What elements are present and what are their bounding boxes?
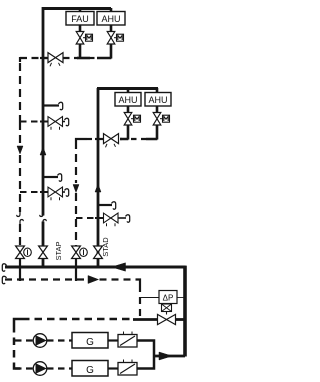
- dP sensor line: [140, 297, 159, 299]
- dP sensor box: [159, 291, 177, 304]
- shutoff valve on bank1 return row: [48, 53, 63, 67]
- flow arrow right on return header: [88, 276, 99, 284]
- wire: AHU drop from header: [110, 8, 113, 12]
- svg-text:G: G: [86, 337, 94, 348]
- wire: merged output to right main: [153, 355, 185, 358]
- pump P1: [33, 334, 47, 348]
- svg-text:AHU: AHU: [148, 95, 167, 105]
- svg-text:G: G: [86, 365, 94, 376]
- balancing valve w/ gauge on x76: [72, 246, 81, 259]
- gooseneck on drain row y218: [126, 215, 130, 223]
- balancing valve w/ gauge on x20: [16, 246, 25, 259]
- wire: bank2 return row dashed: [87, 138, 96, 140]
- wire: FAU tee on return row: [77, 57, 90, 60]
- wire: AHU2.2 drop: [156, 88, 159, 93]
- svg-text:ΔP: ΔP: [163, 294, 174, 303]
- flow arrow up on x98: [95, 184, 101, 192]
- vent tee with gooseneck on riser x43 (lower): [44, 176, 58, 178]
- control valve below AHU2.2: [153, 113, 161, 126]
- flow arrow up on x43: [40, 147, 46, 155]
- flow arrow down on x20: [17, 146, 23, 154]
- wire: AHU2.1 drop: [127, 88, 130, 93]
- drain row y192: dashed from x20 tee: [20, 191, 41, 193]
- drain valve on row y192: [48, 187, 63, 197]
- wire: bottom supply header (solid): [5, 266, 186, 269]
- unit AHU (bank2 left): [115, 93, 141, 107]
- svg-text:AHU: AHU: [101, 14, 120, 24]
- wire: AHU2.2 pipe to valve: [156, 106, 159, 113]
- unit AHU (bank2 right): [145, 93, 171, 107]
- wire: supply riser x43: [42, 7, 45, 216]
- flexible union on x20: [17, 212, 23, 224]
- svg-text:STAD: STAD: [101, 237, 110, 257]
- boiler G1: [72, 333, 108, 349]
- gooseneck on drain row y192: [65, 189, 69, 197]
- wire: right supply main vertical: [183, 266, 187, 357]
- wire: FAU pipe to valve: [79, 25, 82, 32]
- gooseneck left end of return header: [2, 276, 6, 284]
- flow arrow right on output: [159, 352, 172, 360]
- svg-text:AHU: AHU: [118, 95, 137, 105]
- unit FAU: [66, 12, 94, 26]
- wire: AHU2.1 pipe to valve: [127, 106, 130, 113]
- flow device F2: [118, 363, 137, 376]
- svg-text:FAU: FAU: [71, 14, 89, 24]
- drain row y121: dashed from x20 tee: [20, 121, 41, 123]
- drain row y218 from x76: [76, 217, 96, 219]
- wire: FAU pipe below valve to return row: [79, 44, 82, 59]
- wire: return drop x20 corner: [19, 57, 21, 62]
- shutoff valve on bank2 return row: [104, 134, 119, 148]
- wire: boiler loop left vertical dashed: [13, 325, 16, 364]
- gooseneck on drain row y121: [65, 118, 69, 126]
- wire: AHU pipe elbow down to return row: [97, 44, 111, 59]
- wire: bank2 supply header: [97, 87, 158, 90]
- wire: bank1 return row dashed: [20, 57, 47, 59]
- wire: bottom return header (dashed): [5, 278, 87, 280]
- wire: boiler branch2 dashed: [15, 367, 33, 369]
- return riser x76: corner from bank2 return row: [76, 139, 87, 141]
- flow device F1: [118, 335, 137, 348]
- gooseneck left end of supply header: [2, 264, 6, 272]
- unit AHU (bank1): [97, 12, 125, 26]
- wire: AHU(bank1) pipe to valve: [110, 25, 113, 32]
- flow arrow down on x76: [73, 185, 79, 193]
- wire: boiler branch1 dashed: [15, 339, 33, 341]
- control valve below AHU2.1: [124, 113, 132, 126]
- wire: return riser x20 dashed: [19, 63, 21, 122]
- drain valve on row y218: [104, 213, 119, 223]
- bypass valve with actuator: [133, 318, 158, 321]
- svg-text:STAP: STAP: [54, 241, 63, 260]
- drain valve on row y121: [48, 117, 63, 127]
- flow arrow left on supply header: [112, 263, 126, 271]
- shutoff valve on x98: [94, 246, 103, 259]
- pump P2: [33, 362, 47, 376]
- shutoff valve on x43: [39, 246, 48, 259]
- control valve below FAU: [76, 32, 84, 45]
- vent tee with gooseneck on riser x98: [99, 204, 112, 206]
- boiler G2: [72, 361, 108, 377]
- wire: FAU drop from header: [79, 8, 82, 12]
- wire: return header corner down x140: [136, 280, 140, 286]
- wire: boiler loop top dashed line: [14, 319, 22, 325]
- supply riser x98: [97, 88, 100, 268]
- flexible union on x43: [40, 212, 46, 224]
- vent tee with gooseneck on riser x43 (upper): [44, 104, 59, 106]
- wire: bank1 top supply header: [43, 7, 111, 10]
- control valve below AHU (bank1): [107, 32, 115, 45]
